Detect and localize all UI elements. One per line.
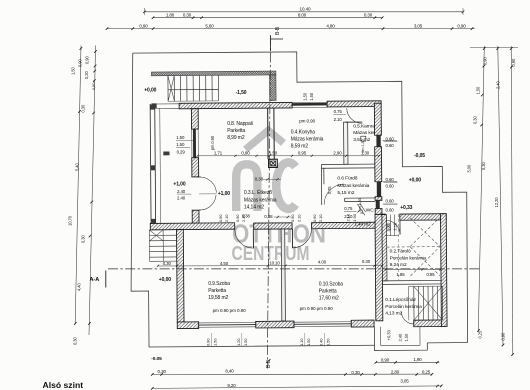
bottom dim rows [152,373,432,376]
door room 0.9 [252,229,254,248]
dashed stair-above in room 0.2 [410,218,440,247]
svg-text:0,60: 0,60 [91,82,96,90]
dim row 1.80/0.30/8.00/0.30 [153,17,383,19]
svg-text:Porcelán kerámia: Porcelán kerámia [390,255,427,261]
porch door arc [401,312,413,324]
svg-text:1,90: 1,90 [413,357,422,362]
svg-text:2.10: 2.10 [345,213,350,221]
svg-text:1.50: 1.50 [243,338,248,346]
svg-text:0,29: 0,29 [177,149,186,154]
interior dim row y156 [198,155,380,157]
svg-text:1.10: 1.10 [299,338,304,346]
svg-text:0,90: 0,90 [139,24,148,29]
svg-text:0,90: 0,90 [511,58,516,67]
pantry door [347,108,363,124]
corridor south wall segments [150,223,234,230]
entry door arc [386,220,400,234]
svg-text:4,40: 4,40 [77,282,82,291]
section line A-A [108,268,480,270]
svg-text:14,14 m2: 14,14 m2 [244,205,264,211]
entry steps [386,215,388,236]
bathroom enclosure [321,163,374,165]
svg-text:+0,33: +0,33 [400,205,412,211]
svg-text:1,44 m2: 1,44 m2 [354,221,371,226]
svg-text:-0,05: -0,05 [414,153,425,159]
svg-text:0,90: 0,90 [483,56,488,65]
svg-text:2.40: 2.40 [177,196,186,201]
svg-text:0.60: 0.60 [386,136,395,141]
svg-text:0,30: 0,30 [163,261,172,266]
dim row 0.90/5.60/4.80/3.05/0.90 [107,28,475,30]
upper storey / terrace outline [133,51,468,346]
dim row room 0.2 [386,268,440,270]
svg-text:5,15 m2: 5,15 m2 [337,190,354,196]
svg-text:A-A: A-A [90,277,100,283]
svg-text:pm 0.90: pm 0.90 [210,135,215,150]
svg-text:3,05: 3,05 [414,24,423,29]
wc north wall [345,197,375,199]
svg-text:0,25: 0,25 [478,330,483,339]
svg-text:0,38: 0,38 [255,176,264,181]
north wall east segment [327,101,381,107]
svg-text:4,80: 4,80 [326,24,335,29]
svg-text:+1,00: +1,00 [173,182,185,188]
svg-text:0.75: 0.75 [334,109,343,114]
svg-text:5,40: 5,40 [75,162,80,171]
svg-text:pm 0.90 pm 0.90: pm 0.90 pm 0.90 [213,308,247,313]
svg-text:Parketta: Parketta [319,289,337,295]
svg-text:0.8. Nappali: 0.8. Nappali [227,121,253,127]
svg-text:4.00: 4.00 [318,259,327,264]
svg-text:1,50: 1,50 [269,151,278,156]
svg-text:0.9.Szoba: 0.9.Szoba [208,281,230,287]
svg-text:0.30: 0.30 [183,12,192,17]
right dim lines [470,47,518,49]
svg-text:0.90: 0.90 [218,214,223,222]
svg-text:0,30: 0,30 [158,369,167,374]
svg-text:0,90: 0,90 [241,151,250,156]
svg-text:0.10.Szoba: 0.10.Szoba [319,281,344,287]
terrace west wall [149,104,152,223]
svg-text:Porcelán kerámia: Porcelán kerámia [385,304,422,310]
svg-text:0.30: 0.30 [364,12,373,17]
svg-text:0,25: 0,25 [422,370,431,375]
svg-text:0,90: 0,90 [85,55,90,64]
south window room 0.9 [199,321,256,323]
top-left wall post [151,103,156,108]
bathroom door [324,184,345,205]
svg-text:pm 0.90: pm 0.90 [299,118,315,123]
south wall segments [177,322,198,329]
svg-text:Alsó szint: Alsó szint [43,380,84,390]
svg-text:0.3.L. Étkező: 0.3.L. Étkező [244,189,272,196]
svg-text:1.50: 1.50 [176,135,185,140]
svg-text:5,60: 5,60 [205,24,214,29]
north wall west segment [179,102,292,108]
svg-text:1,50: 1,50 [303,92,308,101]
svg-text:4,13 m2: 4,13 m2 [385,311,402,317]
window west living room [193,129,196,158]
window kitchen north [292,103,327,106]
south window room 0.10 [294,321,351,323]
svg-text:10,70: 10,70 [68,215,73,226]
svg-text:0,95: 0,95 [298,151,307,156]
svg-text:+0,00: +0,00 [409,177,421,183]
svg-text:2,80: 2,80 [391,370,400,375]
svg-text:3,51 m2: 3,51 m2 [353,137,370,143]
entry porch [374,326,427,350]
svg-text:1,00: 1,00 [386,224,391,232]
dim row 10.40 [145,11,464,13]
svg-text:1.50: 1.50 [176,142,185,147]
svg-text:0,30: 0,30 [473,115,478,124]
svg-text:1,71: 1,71 [214,151,223,156]
svg-text:0.5.Kamra: 0.5.Kamra [353,123,375,129]
svg-text:Mázas kerámia: Mázas kerámia [337,183,369,189]
svg-text:8,99 m2: 8,99 m2 [227,135,245,141]
svg-text:0,30: 0,30 [73,336,78,345]
svg-text:B-B: B-B [275,26,281,35]
svg-text:+0,00: +0,00 [144,87,156,93]
svg-text:0,90: 0,90 [381,358,390,363]
svg-text:0.4.Konyha: 0.4.Konyha [291,129,316,135]
svg-text:4.50: 4.50 [220,261,229,266]
east wall rear block [440,214,447,327]
svg-text:19,58 m2: 19,58 m2 [208,295,228,301]
outside stair lower left [149,229,176,231]
svg-text:9,20: 9,20 [227,383,236,388]
svg-text:-1,50: -1,50 [236,90,247,96]
wall between room 0.10 and rear block [375,214,383,320]
svg-text:3,05: 3,05 [400,379,409,384]
svg-text:+1,00: +1,00 [218,191,230,197]
svg-text:0.90: 0.90 [206,338,211,346]
svg-text:2.10: 2.10 [334,117,343,122]
wc door slashes [357,204,365,216]
svg-text:1.20: 1.20 [236,338,241,346]
svg-text:pm 0.90 pm 0.90: pm 0.90 pm 0.90 [300,306,334,311]
door room 0.10 [291,229,293,248]
svg-text:0.1.Lépcsőház: 0.1.Lépcsőház [385,297,416,303]
svg-text:+0,00: +0,00 [159,277,171,283]
svg-text:Mázas kerámia: Mázas kerámia [291,136,324,142]
svg-text:0.7: 0.7 [359,208,364,214]
svg-text:Parketta: Parketta [227,128,245,134]
svg-text:0,90: 0,90 [78,58,83,67]
svg-text:0.40: 0.40 [319,338,324,346]
svg-text:1.50: 1.50 [306,338,311,346]
double door terrace->dining [200,177,216,193]
svg-text:0.60: 0.60 [386,184,395,189]
svg-text:0,30: 0,30 [351,370,360,375]
west wall lower block [177,230,185,323]
svg-text:2,40: 2,40 [496,80,501,89]
svg-text:5,00: 5,00 [467,164,472,173]
svg-text:8,40: 8,40 [225,369,234,374]
svg-text:0,30: 0,30 [81,234,86,243]
svg-text:0.60: 0.60 [386,143,395,148]
svg-text:2.10: 2.10 [224,214,229,222]
svg-text:0.60: 0.60 [386,207,395,212]
svg-text:0,75: 0,75 [344,206,353,211]
radiator mark [163,151,169,155]
svg-text:2,10: 2,10 [393,222,398,231]
svg-text:Mázas ker: Mázas ker [353,130,375,136]
svg-text:1.50: 1.50 [213,338,218,346]
left dim lines [75,46,81,324]
divider 0.2 / stairwell [383,279,441,281]
watermark Otthon Centrum logo [232,131,327,266]
svg-text:1.50: 1.50 [326,338,331,346]
svg-text:0.95: 0.95 [426,272,435,277]
terrace door opening in north wall [157,103,179,105]
svg-text:0.90: 0.90 [312,214,317,222]
svg-text:8,59 m2: 8,59 m2 [291,143,309,149]
svg-text:2.10: 2.10 [241,214,246,222]
svg-text:0.30: 0.30 [362,259,371,264]
svg-text:10.40: 10.40 [300,6,312,11]
svg-text:0.90: 0.90 [235,214,240,222]
svg-text:0,90: 0,90 [457,24,466,29]
svg-text:2,40: 2,40 [398,333,403,342]
svg-text:1.80: 1.80 [166,12,175,17]
svg-text:0,90: 0,90 [501,332,506,341]
svg-text:1.90: 1.90 [352,213,357,221]
svg-text:0.90: 0.90 [290,214,295,222]
svg-text:2,90: 2,90 [333,150,342,155]
svg-text:1,50: 1,50 [309,92,314,101]
svg-text:0,20: 0,20 [84,70,89,79]
svg-text:Mázas kerámia: Mázas kerámia [244,197,277,203]
chimney block [269,159,278,167]
svg-text:1,50: 1,50 [476,86,481,95]
svg-text:0,30: 0,30 [81,104,86,113]
svg-text:-0.05: -0.05 [151,356,162,362]
svg-text:1,50: 1,50 [404,333,409,342]
interior dim row y266 [158,264,382,267]
stair upper flight [167,76,169,101]
terrace parapet east return [269,75,276,101]
svg-text:0.2.Tároló: 0.2.Tároló [390,249,411,255]
svg-text:12,20: 12,20 [494,197,499,208]
pier at wc corner [377,214,386,228]
terrace parapet north [151,71,276,76]
svg-text:5,30: 5,30 [481,161,486,170]
svg-text:Parketta: Parketta [208,288,226,294]
pantry divider wall [344,122,348,164]
svg-text:10.10: 10.10 [269,261,280,266]
svg-text:1.85: 1.85 [396,272,405,277]
west wall of living room [191,109,198,129]
svg-text:+0,33: +0,33 [386,329,391,340]
east wall windows [376,135,380,147]
svg-text:0.6 Fürdő: 0.6 Fürdő [337,176,357,182]
svg-text:0.60: 0.60 [386,177,395,182]
north wall of rear block [380,214,385,220]
svg-text:2.10: 2.10 [297,214,302,222]
svg-text:1,50: 1,50 [71,66,76,75]
svg-text:0,38: 0,38 [264,214,273,219]
svg-text:2.10: 2.10 [318,214,323,222]
east wall upper [374,103,381,135]
svg-text:0.60: 0.60 [386,199,395,204]
svg-text:9,24 m2: 9,24 m2 [390,262,407,268]
svg-text:WC: WC [366,208,374,214]
svg-text:17,60 m2: 17,60 m2 [319,296,339,302]
svg-text:0,75: 0,75 [327,186,332,195]
stairwell interior stairs [413,286,415,320]
wall living/kitchen divider [267,108,269,159]
svg-text:2.40: 2.40 [177,189,186,194]
room divider 0.9/0.10 [281,229,285,321]
svg-text:8.00: 8.00 [298,12,307,17]
section line B-B [267,35,270,368]
